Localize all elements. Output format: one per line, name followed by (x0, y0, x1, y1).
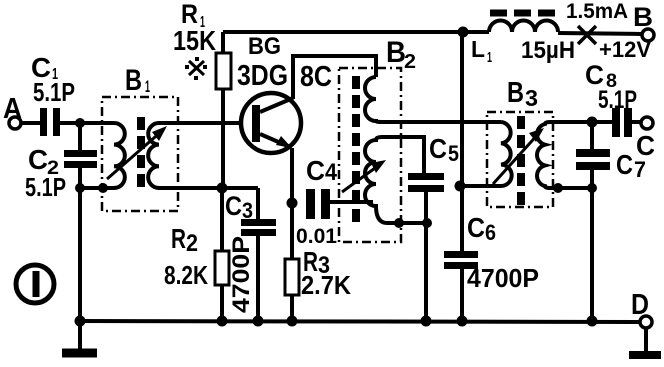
svg-text:C: C (28, 144, 48, 175)
ground symbol right (644, 328, 648, 353)
node C7 bottom (587, 183, 597, 193)
svg-text:R: R (171, 223, 186, 254)
wire B3 secondary top to C8 (550, 120, 612, 124)
svg-text:1: 1 (145, 77, 150, 96)
node emitter / C4 (287, 198, 298, 209)
capacitor C8 5.1P (612, 108, 620, 137)
figure number circle 1 (16, 265, 54, 303)
node C3 ground (253, 316, 264, 327)
svg-text:C: C (616, 149, 633, 180)
svg-text:D: D (631, 289, 649, 321)
B2 core (352, 76, 360, 226)
transformer B1 box (102, 97, 178, 211)
wire A to C1 (21, 121, 40, 125)
core of L1 (dashed bar) (490, 10, 559, 17)
svg-text:7: 7 (634, 157, 646, 182)
node C5 ground (421, 316, 432, 327)
wire ground line under B1 to C3 (159, 186, 258, 190)
node junction top rail / vertical rail (458, 27, 469, 38)
wire collector to B2 (293, 56, 376, 99)
svg-text:C: C (467, 212, 485, 243)
svg-text:5.1P: 5.1P (598, 86, 637, 114)
transformer B2 box (339, 68, 401, 242)
svg-text:4700P: 4700P (228, 236, 255, 313)
B1 core (137, 117, 145, 190)
adjust-on-test asterisk (189, 61, 204, 75)
transformer B3 box (487, 112, 553, 207)
node C5 bottom (422, 218, 432, 228)
B1 secondary winding (148, 123, 159, 188)
terminal A (9, 117, 21, 129)
svg-text:C: C (225, 191, 242, 221)
svg-text:C: C (306, 155, 325, 186)
B3 secondary winding (537, 122, 550, 188)
svg-text:2: 2 (404, 51, 416, 73)
wire C7 to ground rail (590, 188, 594, 321)
node C6 ground (457, 316, 468, 327)
capacitor C4 0.01 (306, 189, 315, 219)
svg-text:BG: BG (248, 33, 281, 60)
svg-text:3: 3 (525, 85, 538, 111)
X measurement mark (578, 26, 596, 44)
node input (75, 118, 85, 128)
node R3 ground (287, 316, 298, 327)
node B3 secondary bottom (553, 183, 563, 193)
wire B3 secondary bottom to C7 (550, 186, 592, 190)
wire B2 secondary bottom (386, 221, 427, 225)
wire rail to B3 primary bottom (460, 184, 501, 188)
node B2 bottom (394, 218, 404, 228)
B3 tuning arrow (493, 132, 540, 184)
node rail / B3 primary bottom (455, 181, 466, 192)
capacitor C7 (590, 122, 594, 149)
svg-text:2: 2 (186, 230, 198, 257)
svg-text:15K: 15K (173, 25, 216, 56)
svg-text:3DG: 3DG (237, 60, 288, 92)
wire L1 to terminal B (558, 33, 642, 34)
terminal B (642, 29, 654, 41)
wire base line (159, 121, 252, 125)
resistor R1 15K (221, 32, 225, 53)
capacitor C1 5.1P (40, 108, 47, 136)
svg-text:A: A (3, 93, 22, 125)
svg-text:8.2K: 8.2K (164, 260, 208, 290)
node C2 ground line (75, 183, 85, 193)
B1 primary winding (80, 123, 125, 188)
wire top supply rail (223, 30, 489, 34)
wire C1 to node (60, 121, 102, 125)
svg-text:2.7K: 2.7K (301, 270, 351, 300)
svg-text:5.1P: 5.1P (33, 77, 75, 107)
node B1 primary bottom (98, 183, 108, 193)
svg-text:8C: 8C (300, 61, 332, 93)
svg-text:0.01: 0.01 (296, 225, 337, 248)
B2 primary winding (365, 77, 382, 122)
capacitor C5 (408, 173, 444, 180)
svg-text:+12V: +12V (599, 37, 651, 62)
node R2 ground (217, 316, 228, 327)
ground symbol left (78, 321, 82, 350)
svg-text:4700P: 4700P (467, 263, 539, 293)
terminal D (640, 316, 652, 328)
svg-text:C: C (429, 133, 447, 164)
svg-text:L: L (471, 36, 485, 62)
svg-text:5: 5 (448, 141, 459, 166)
wire bottom-left ground segment (80, 186, 114, 190)
svg-text:4: 4 (325, 159, 338, 186)
svg-text:1.5mA: 1.5mA (566, 0, 628, 23)
B2 secondary winding (365, 137, 386, 223)
svg-text:5.1P: 5.1P (25, 172, 66, 202)
svg-text:B: B (386, 36, 406, 69)
capacitor C2 5.1P (78, 123, 82, 150)
capacitor C6 4700P (444, 251, 478, 258)
B3 core (517, 116, 525, 206)
wire emitter down (290, 148, 294, 259)
svg-text:B: B (507, 77, 524, 109)
svg-text:B: B (125, 64, 142, 97)
node C7 ground (587, 316, 598, 327)
B3 primary winding (501, 122, 512, 186)
node R1/R2/C3 junction (217, 183, 228, 194)
terminal C (641, 117, 653, 129)
svg-text:B: B (633, 2, 653, 32)
B2 tuning arrow (342, 163, 382, 192)
resistor R3 2.7K (285, 259, 299, 295)
svg-text:6: 6 (485, 220, 496, 245)
svg-text:3: 3 (242, 198, 253, 223)
wire B2 primary to rail to B3 (382, 120, 501, 124)
node C7 top (587, 117, 598, 128)
inductor L1 (489, 21, 558, 33)
wire B2 secondary top to C5 (382, 137, 424, 173)
svg-text:15µH: 15µH (521, 37, 575, 64)
node ground left (75, 316, 86, 327)
svg-text:1: 1 (487, 49, 492, 66)
wire ground rail (78, 321, 641, 322)
capacitor C3 4700P (256, 188, 260, 220)
wire main vertical rail (460, 32, 464, 251)
transistor BG 3DG8C (241, 93, 301, 153)
resistor R2 8.2K (220, 188, 224, 251)
B1 tuning arrow (107, 130, 163, 179)
